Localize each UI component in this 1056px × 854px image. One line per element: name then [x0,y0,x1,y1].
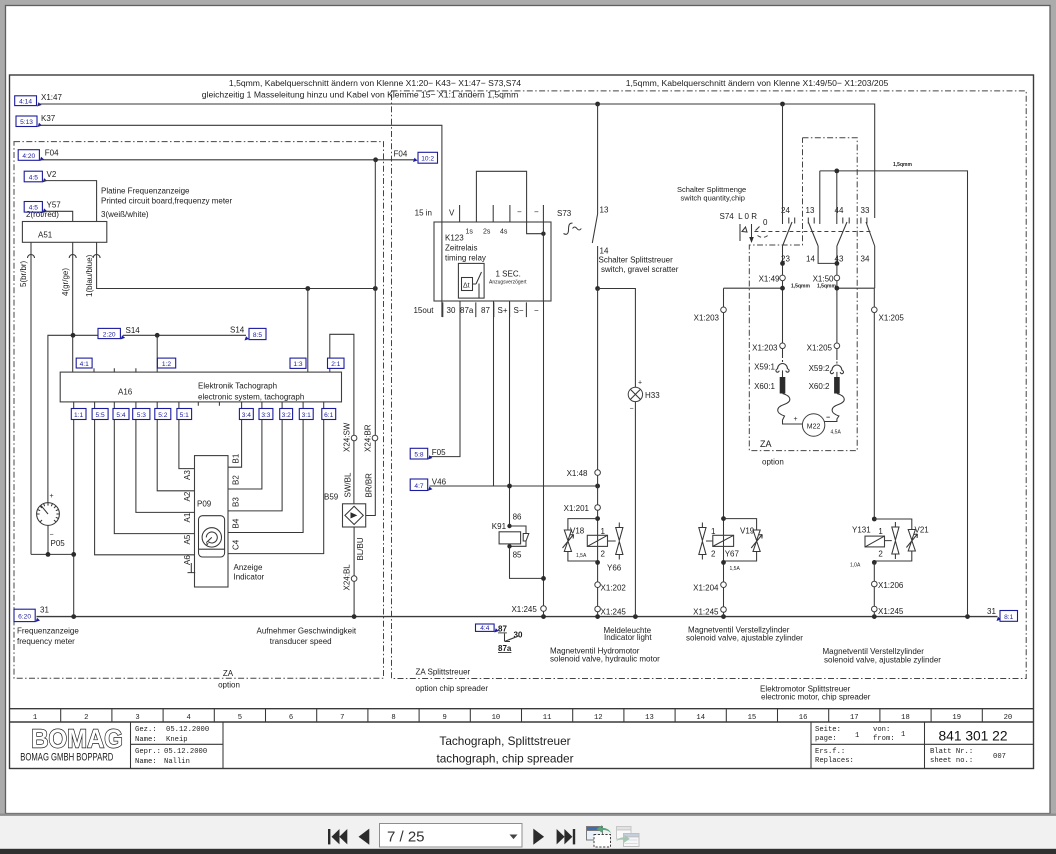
svg-text:Δt: Δt [463,283,470,290]
svg-text:X1:48: X1:48 [567,469,588,478]
svg-text:87: 87 [481,306,490,315]
svg-text:1: 1 [601,527,606,536]
ref box 3:3 [259,409,273,420]
svg-text:+: + [794,416,798,423]
svg-text:86: 86 [513,513,522,522]
K123 timer contact box [458,263,484,298]
svg-text:20: 20 [1004,714,1013,722]
svg-text:6: 6 [289,714,293,722]
ref box 4:20 [18,150,39,161]
A16 top spare ticks [94,368,136,372]
P09 indicator inner symbol [199,516,225,557]
svg-text:X24:SW: X24:SW [343,422,352,452]
PCB A51 [22,222,106,243]
svg-text:A5: A5 [183,534,192,544]
ref box 3:4 [239,409,253,420]
connector X1:245 (Y131) [872,606,878,612]
svg-text:Indicator: Indicator [234,573,265,582]
svg-text:1(blau/blue): 1(blau/blue) [85,254,94,297]
arrow into 8:1 [997,617,1002,621]
svg-text:14: 14 [696,714,705,722]
P09 pin labels left [183,470,192,565]
svg-text:BOMAG GMBH BOPPARD: BOMAG GMBH BOPPARD [20,751,113,764]
svg-text:V46: V46 [432,478,447,487]
svg-text:transducer speed: transducer speed [270,637,332,646]
S74 coupling dashed line [754,231,871,233]
column numbers 1-20 [33,714,1012,722]
ref box 5:3 [133,409,150,420]
ground bus 31 [37,616,998,618]
indicator lamp H33 [628,387,642,401]
junction 23 [780,261,785,266]
valve symbol Y66 [608,523,623,560]
svg-text:5:5: 5:5 [96,412,105,419]
svg-text:1,5qmm: 1,5qmm [817,284,836,290]
junction on X1:47 at S74 column [780,102,785,107]
svg-text:15 in: 15 in [415,209,432,218]
ref box 4:7 [410,479,428,491]
svg-text:V21: V21 [915,526,930,535]
option boundary box right (chip spreader) [392,91,1027,679]
junction bracket/minus line [541,232,545,236]
svg-text:Tachograph, Splittstreuer: Tachograph, Splittstreuer [439,734,570,748]
P09 ground stub [188,563,196,573]
junction Y66 top [595,516,600,521]
wire coil squiggle left [778,394,803,425]
svg-text:85: 85 [513,551,522,560]
wire K37 to K123 pin 30 [39,125,442,317]
A51 pin 5 wire down [30,242,32,554]
junction S73/H33 branch [595,286,600,291]
svg-text:5:2: 5:2 [158,412,167,419]
svg-text:X1:245: X1:245 [878,607,904,616]
svg-text:14: 14 [806,255,815,264]
svg-text:−: − [534,208,539,217]
svg-text:X1:50: X1:50 [813,275,834,284]
junction rail288/B59 [373,286,378,291]
svg-text:+: + [50,493,54,500]
svg-text:2: 2 [84,714,88,722]
svg-text:S+: S+ [498,306,508,315]
svg-text:von:: von: [873,726,890,734]
wire Y67 column from X1:203 [723,288,725,616]
svg-text:31: 31 [987,607,996,616]
A16 bottom pin wires [74,402,195,617]
svg-text:BR/BR: BR/BR [365,473,374,498]
title block top line [10,721,1034,723]
svg-text:5(br/br): 5(br/br) [19,260,28,287]
svg-text:K37: K37 [41,114,56,123]
junction rail288/1:3 [305,286,310,291]
svg-text:K123: K123 [445,234,464,243]
connector X60:1 [780,377,786,394]
junction Y131 bottom [872,560,877,565]
connector hook on wire 5 [28,255,35,259]
svg-text:X24:BR: X24:BR [364,424,373,452]
svg-text:gleichzeitig 1 Masseleitung hi: gleichzeitig 1 Masseleitung hinzu und Ka… [202,90,519,100]
wire B59 right feed [366,160,376,516]
svg-text:1,0A: 1,0A [850,563,861,569]
solenoid coil Y67 [713,535,734,546]
svg-text:Zeitrelais: Zeitrelais [445,244,477,253]
column numbers row separator [10,708,1034,710]
connector X1:203 inner [780,343,786,349]
svg-text:3:4: 3:4 [242,412,251,419]
ref box 4:14 [15,96,37,106]
svg-text:X1:201: X1:201 [564,504,590,513]
ref box 1:3 [290,358,306,368]
svg-text:3(weiß/white): 3(weiß/white) [101,210,149,219]
svg-text:7: 7 [340,714,344,722]
svg-text:87: 87 [498,625,507,634]
svg-text:V19: V19 [740,527,755,536]
wire 1:2 pin [156,335,158,372]
indicator connector P09 [195,456,229,587]
svg-text:1: 1 [878,527,883,536]
ref box 1:2 [157,358,175,368]
ref box 3:2 [280,409,293,420]
svg-text:11: 11 [543,714,552,722]
wire V2 into A51 [44,181,97,222]
svg-text:X60:1: X60:1 [754,382,775,391]
svg-text:1,5A: 1,5A [576,553,587,559]
svg-text:Anzugsverzögert: Anzugsverzögert [489,280,527,286]
toolbar page combo box [380,824,523,848]
svg-text:1 SEC.: 1 SEC. [496,270,521,279]
svg-text:from:: from: [873,735,895,743]
ref box 3:1 [299,409,313,420]
connector X1:201 [595,505,601,511]
K123 internal bracket wire [476,171,543,233]
svg-text:1:1: 1:1 [74,412,83,419]
connector X1:49 [780,275,786,281]
toolbar next button [533,829,544,845]
ref box 6:1 [322,409,336,420]
wire S14 rail [48,335,246,502]
svg-text:Y67: Y67 [725,550,740,559]
svg-text:3:1: 3:1 [302,412,311,419]
svg-text:9: 9 [443,714,447,722]
svg-text:X1:49: X1:49 [759,275,780,284]
title block dividers [131,722,1034,768]
svg-text:5:8: 5:8 [414,452,423,459]
svg-text:1:3: 1:3 [293,361,302,368]
svg-text:F04: F04 [394,150,408,159]
svg-text:−: − [826,415,830,422]
schematic drawing frame [10,75,1034,769]
svg-text:solenoid valve, ajustable zyli: solenoid valve, ajustable zylinder [824,656,941,665]
valve symbol Y67 [699,523,713,560]
K123 bottom pin label row [443,302,527,317]
svg-text:Name:: Name: [135,736,157,744]
gauge P05 [37,493,66,554]
svg-text:V2: V2 [47,170,57,179]
wire Y57 into A51 [44,211,73,221]
svg-text:A2: A2 [183,491,192,501]
svg-text:option chip spreader: option chip spreader [416,684,489,693]
svg-text:1: 1 [33,714,37,722]
motor M22 [802,414,824,436]
svg-text:X1:203: X1:203 [752,344,778,353]
wire K91 85 to X1:245 column [510,546,544,578]
svg-text:X60:2: X60:2 [809,382,830,391]
ref box 5:4 [113,409,129,420]
svg-text:electronic motor, chip spreade: electronic motor, chip spreader [761,693,871,702]
svg-text:X1:202: X1:202 [601,584,627,593]
svg-text:B2: B2 [232,475,241,485]
svg-text:BL/BU: BL/BU [356,537,365,560]
svg-text:B59: B59 [324,493,339,502]
connector hook on wire 4 [69,255,76,259]
Gez/Name box text [135,726,209,766]
svg-text:P09: P09 [197,500,212,509]
wire coil squiggle right [825,394,845,422]
column number cell dividers [61,709,983,722]
svg-text:4:20: 4:20 [22,153,35,160]
svg-text:5:3: 5:3 [137,412,146,419]
wire 1:3 pin up [307,289,309,373]
svg-text:5: 5 [238,714,242,722]
svg-text:Aufnehmer Geschwindigkeit: Aufnehmer Geschwindigkeit [257,627,357,636]
bus junctions [71,614,76,619]
svg-text:0: 0 [763,218,768,227]
svg-text:1,5qmm, Kabelquerschnitt änder: 1,5qmm, Kabelquerschnitt ändern von Klen… [626,78,889,88]
svg-text:X1:245: X1:245 [693,608,719,617]
wire F04 rail [41,159,415,161]
svg-text:X59:2: X59:2 [809,364,830,373]
svg-text:1: 1 [855,732,859,740]
svg-text:15: 15 [748,714,757,722]
svg-text:1,5qmm: 1,5qmm [893,162,912,168]
svg-text:4:7: 4:7 [414,483,423,490]
svg-text:Gez.:: Gez.: [135,726,157,734]
svg-text:Indicator light: Indicator light [604,633,652,642]
K123 pin S+ wire down [493,301,495,486]
svg-text:S14: S14 [126,326,141,335]
connector X60:2 [834,377,840,394]
junction S14/1:2 [155,333,160,338]
K123 pin 87a wire to F05 [430,301,461,457]
svg-text:switch quantity,chip: switch quantity,chip [681,194,745,203]
svg-text:17: 17 [850,714,859,722]
arrow into 8:5 [245,336,250,340]
toolbar detach-page icon [587,825,612,847]
connector X1:245 (Y66) [595,606,601,612]
svg-text:13: 13 [600,206,609,215]
svg-text:Ers.f.:: Ers.f.: [815,748,845,756]
svg-text:Y57: Y57 [47,201,62,210]
svg-text:Replaces:: Replaces: [815,757,854,765]
svg-text:A51: A51 [38,231,53,240]
S74 lever symbol [740,224,752,241]
svg-text:option: option [762,458,784,467]
svg-text:Name:: Name: [135,758,157,766]
timing relay K123 box [434,222,551,301]
option boundary box left (ZA) [14,142,384,679]
svg-text:Schalter Splittstreuer: Schalter Splittstreuer [599,256,674,265]
wire S73 column from X1:47 [597,104,599,205]
svg-text:10:2: 10:2 [421,156,434,163]
svg-text:2:20: 2:20 [103,331,116,338]
svg-text:007: 007 [993,753,1006,761]
junction 43 [835,261,840,266]
svg-text:page:: page: [815,735,837,743]
svg-text:19: 19 [952,714,961,722]
connector X1:203 outer [721,307,727,313]
svg-text:2: 2 [711,550,716,559]
tachograph A16 box [60,372,341,402]
svg-text:7 / 25: 7 / 25 [387,829,425,846]
ref box 5:2 [155,409,171,420]
svg-text:ZA: ZA [223,669,234,678]
svg-text:4:1: 4:1 [80,361,89,368]
svg-text:electronic system, tachograph: electronic system, tachograph [198,393,304,402]
ref box 10:2 [418,152,438,163]
svg-text:P05: P05 [51,539,66,548]
wire quantity rail 1,5qmm [820,171,968,617]
junction gauge column [46,552,51,557]
svg-text:31: 31 [40,606,49,615]
toolbar first-page button [328,829,347,844]
svg-text:2: 2 [601,550,606,559]
connector X1:204 [721,582,727,588]
svg-text:H33: H33 [645,391,660,400]
svg-text:30: 30 [514,631,523,640]
svg-text:13: 13 [806,206,815,215]
svg-text:Platine Frequenzanzeige: Platine Frequenzanzeige [101,187,190,196]
connector hook on wire 1 [93,255,100,259]
svg-text:B1: B1 [232,453,241,463]
transducer B59 [343,504,366,527]
wire gauge minus to rail [31,553,74,555]
svg-text:F04: F04 [45,149,59,158]
K123 pin S- wire to K91 [509,301,511,526]
svg-text:1,5A: 1,5A [730,566,741,572]
svg-text:B4: B4 [232,518,241,528]
svg-text:6:1: 6:1 [324,412,333,419]
svg-text:Anzeige: Anzeige [234,563,263,572]
svg-text:6:20: 6:20 [18,614,31,621]
svg-text:X1:47: X1:47 [41,93,62,102]
inner option dash box S74/M22 group [749,138,857,451]
svg-text:Seite:: Seite: [815,726,841,734]
junction pin1:1 554 [71,552,76,557]
svg-text:−: − [534,306,539,315]
svg-text:4(gr/ge): 4(gr/ge) [61,268,70,296]
svg-text:Kneip: Kneip [166,736,188,744]
svg-text:8:5: 8:5 [253,332,262,339]
connector X1:202 [595,582,601,588]
toolbar prev button [359,829,370,845]
junction Y67 bottom [721,560,726,565]
junction Y131 top [872,517,877,522]
svg-text:S14: S14 [230,326,245,335]
connector X1:205 outer [872,307,878,313]
svg-text:F05: F05 [432,448,446,457]
svg-text:33: 33 [861,206,870,215]
toolbar bottom dark strip [0,849,1056,854]
svg-text:3: 3 [135,714,139,722]
svg-text:8:1: 8:1 [1004,614,1013,621]
svg-text:solenoid valve, ajustable zyli: solenoid valve, ajustable zylinder [686,634,803,643]
svg-text:S−: S− [514,306,524,315]
svg-text:44: 44 [835,206,844,215]
toolbar top separator [0,814,1056,816]
svg-text:BOMAG: BOMAG [31,725,123,754]
svg-text:A3: A3 [183,470,192,480]
connector X59:2 hook [830,365,843,374]
svg-text:timing relay: timing relay [445,254,486,263]
svg-text:+: + [638,380,642,387]
svg-text:1: 1 [901,731,905,739]
wire V46 rail to Y66 column [430,485,598,487]
svg-text:Blatt Nr.:: Blatt Nr.: [930,748,973,756]
svg-text:Y66: Y66 [607,564,622,573]
svg-text:87a: 87a [460,306,474,315]
svg-text:X1:203: X1:203 [694,314,720,323]
svg-text:3:3: 3:3 [261,412,270,419]
svg-text:5:4: 5:4 [116,412,125,419]
svg-text:87a: 87a [498,644,512,653]
svg-text:2: 2 [878,550,883,559]
svg-text:Nallin: Nallin [164,758,190,766]
connector X1:206 [872,581,878,587]
ref box 5:1 [177,409,192,420]
svg-text:841 301 22: 841 301 22 [938,729,1007,744]
svg-text:S74 L 0 R: S74 L 0 R [720,212,758,221]
wire B59 bottom to bus [353,527,355,617]
ref box 1:1 [71,409,86,420]
toolbar last-page button [557,829,576,844]
svg-text:B3: B3 [232,497,241,507]
svg-text:Frequenzanzeige: Frequenzanzeige [17,627,79,636]
legend 4:4 87/87a/30 contact [476,624,495,631]
svg-text:Gepr.:: Gepr.: [135,748,161,756]
svg-text:3:2: 3:2 [282,412,291,419]
svg-text:ZA Splittstreuer: ZA Splittstreuer [416,668,471,677]
junction on X1:47 at S73 column [595,102,600,107]
svg-text:option: option [218,681,240,690]
junction on X1:245 column [541,576,546,581]
svg-text:−: − [50,532,54,539]
A16 bottom spare ticks [198,402,219,406]
svg-text:1: 1 [711,527,716,536]
svg-text:frequency meter: frequency meter [17,637,75,646]
ref box 2:20 [98,328,120,338]
svg-text:−: − [630,406,634,413]
P09 pin labels right [232,453,241,550]
svg-text:X1:245: X1:245 [601,608,627,617]
A51 pin 1 wire down to horizontal rail [97,242,376,288]
svg-text:18: 18 [901,714,910,722]
svg-text:14: 14 [600,247,609,256]
ref box 6:20 [14,609,35,621]
svg-text:V: V [449,209,455,218]
connector X1:50 [834,275,840,281]
svg-text:4s: 4s [500,229,508,236]
svg-text:K91: K91 [492,522,507,531]
svg-text:X1:205: X1:205 [807,344,833,353]
wire 2:1 bracket to B59 [330,334,354,504]
connector X1:205 inner [834,343,840,349]
connector X24:SW [351,435,357,441]
svg-text:−: − [517,208,522,217]
svg-text:05.12.2000: 05.12.2000 [164,748,207,756]
svg-text:2(rot/red): 2(rot/red) [26,210,59,219]
svg-text:4:5: 4:5 [29,174,38,181]
K123 minus pin line [542,205,544,301]
svg-text:X1:245: X1:245 [511,605,537,614]
